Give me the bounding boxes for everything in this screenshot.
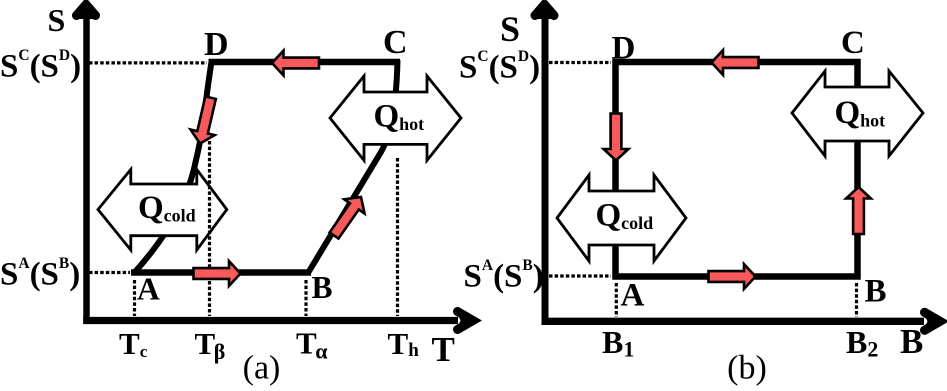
- heat flow double arrow Q_hot (a): [330, 76, 461, 160]
- T axis arrowhead (a): [456, 310, 477, 331]
- svg-text:A: A: [137, 272, 160, 307]
- flow arrow D to A (a): [188, 95, 223, 146]
- dotted guide T_h (a): [396, 158, 399, 316]
- flow arrow A to B (a): [194, 261, 241, 286]
- S axis line (a): [83, 8, 90, 324]
- S axis line (b): [542, 8, 549, 324]
- svg-text:Tα: Tα: [296, 326, 328, 364]
- dotted guide B_1 (b): [615, 283, 618, 317]
- svg-text:C: C: [841, 25, 865, 61]
- flow arrow C to D (b): [712, 50, 759, 75]
- svg-text:D: D: [204, 26, 229, 63]
- svg-text:T: T: [432, 330, 455, 369]
- dotted guide line at S^C level (b): [549, 61, 611, 64]
- dotted guide line at S^C level (a): [89, 61, 207, 64]
- flow arrow B to C (b): [846, 187, 871, 234]
- svg-text:B: B: [312, 270, 333, 305]
- flow arrow B to C (a): [324, 190, 371, 243]
- cycle leg D-C isothermal (a): [209, 59, 401, 66]
- dotted guide T_alpha (a): [304, 280, 307, 316]
- cycle leg B-C adiabat curve (a): [308, 60, 398, 273]
- svg-text:(b): (b): [727, 350, 767, 387]
- heat flow double arrow Q_cold (b): [557, 175, 686, 261]
- svg-text:(a): (a): [243, 350, 281, 387]
- svg-text:B2: B2: [846, 324, 878, 362]
- svg-text:Tβ: Tβ: [195, 326, 226, 364]
- flow arrow D to A (b): [604, 114, 629, 161]
- T axis line (a): [83, 317, 458, 324]
- heat flow double arrow Q_cold (a): [98, 169, 227, 250]
- svg-text:B: B: [900, 322, 923, 361]
- svg-text:S: S: [500, 9, 520, 49]
- svg-text:SA(SB): SA(SB): [0, 255, 80, 293]
- svg-text:SC(SD): SC(SD): [459, 48, 540, 86]
- cycle rectangle A-B-C-D (b): [616, 62, 858, 277]
- dotted guide line at S^A level (b): [549, 274, 611, 277]
- cycle leg D-A adiabat curve (a): [135, 62, 212, 273]
- svg-text:D: D: [612, 31, 636, 67]
- svg-text:S: S: [48, 2, 66, 38]
- flow arrow C to D (a): [272, 51, 319, 76]
- dotted guide T_beta (a): [208, 141, 211, 316]
- svg-text:B: B: [865, 274, 887, 310]
- svg-text:SA(SB): SA(SB): [464, 257, 544, 295]
- S axis arrowhead (b): [535, 1, 556, 19]
- svg-text:SC(SD): SC(SD): [0, 47, 81, 85]
- flow arrow A to B (b): [709, 264, 756, 289]
- svg-text:A: A: [621, 278, 645, 314]
- svg-text:B1: B1: [602, 324, 634, 362]
- B axis line (b): [542, 318, 925, 325]
- heat flow double arrow Q_hot (b): [792, 71, 923, 156]
- svg-text:Tc: Tc: [119, 326, 148, 361]
- svg-text:Th: Th: [388, 326, 420, 361]
- dotted guide T_c (a): [133, 280, 136, 316]
- dotted guide line at S^A level (a): [89, 271, 130, 274]
- cycle leg A-B isothermal (a): [131, 269, 311, 276]
- B axis arrowhead (b): [923, 311, 944, 332]
- svg-text:C: C: [383, 24, 408, 61]
- S axis arrowhead (a): [76, 1, 97, 19]
- dotted guide B_2 (b): [855, 283, 858, 317]
